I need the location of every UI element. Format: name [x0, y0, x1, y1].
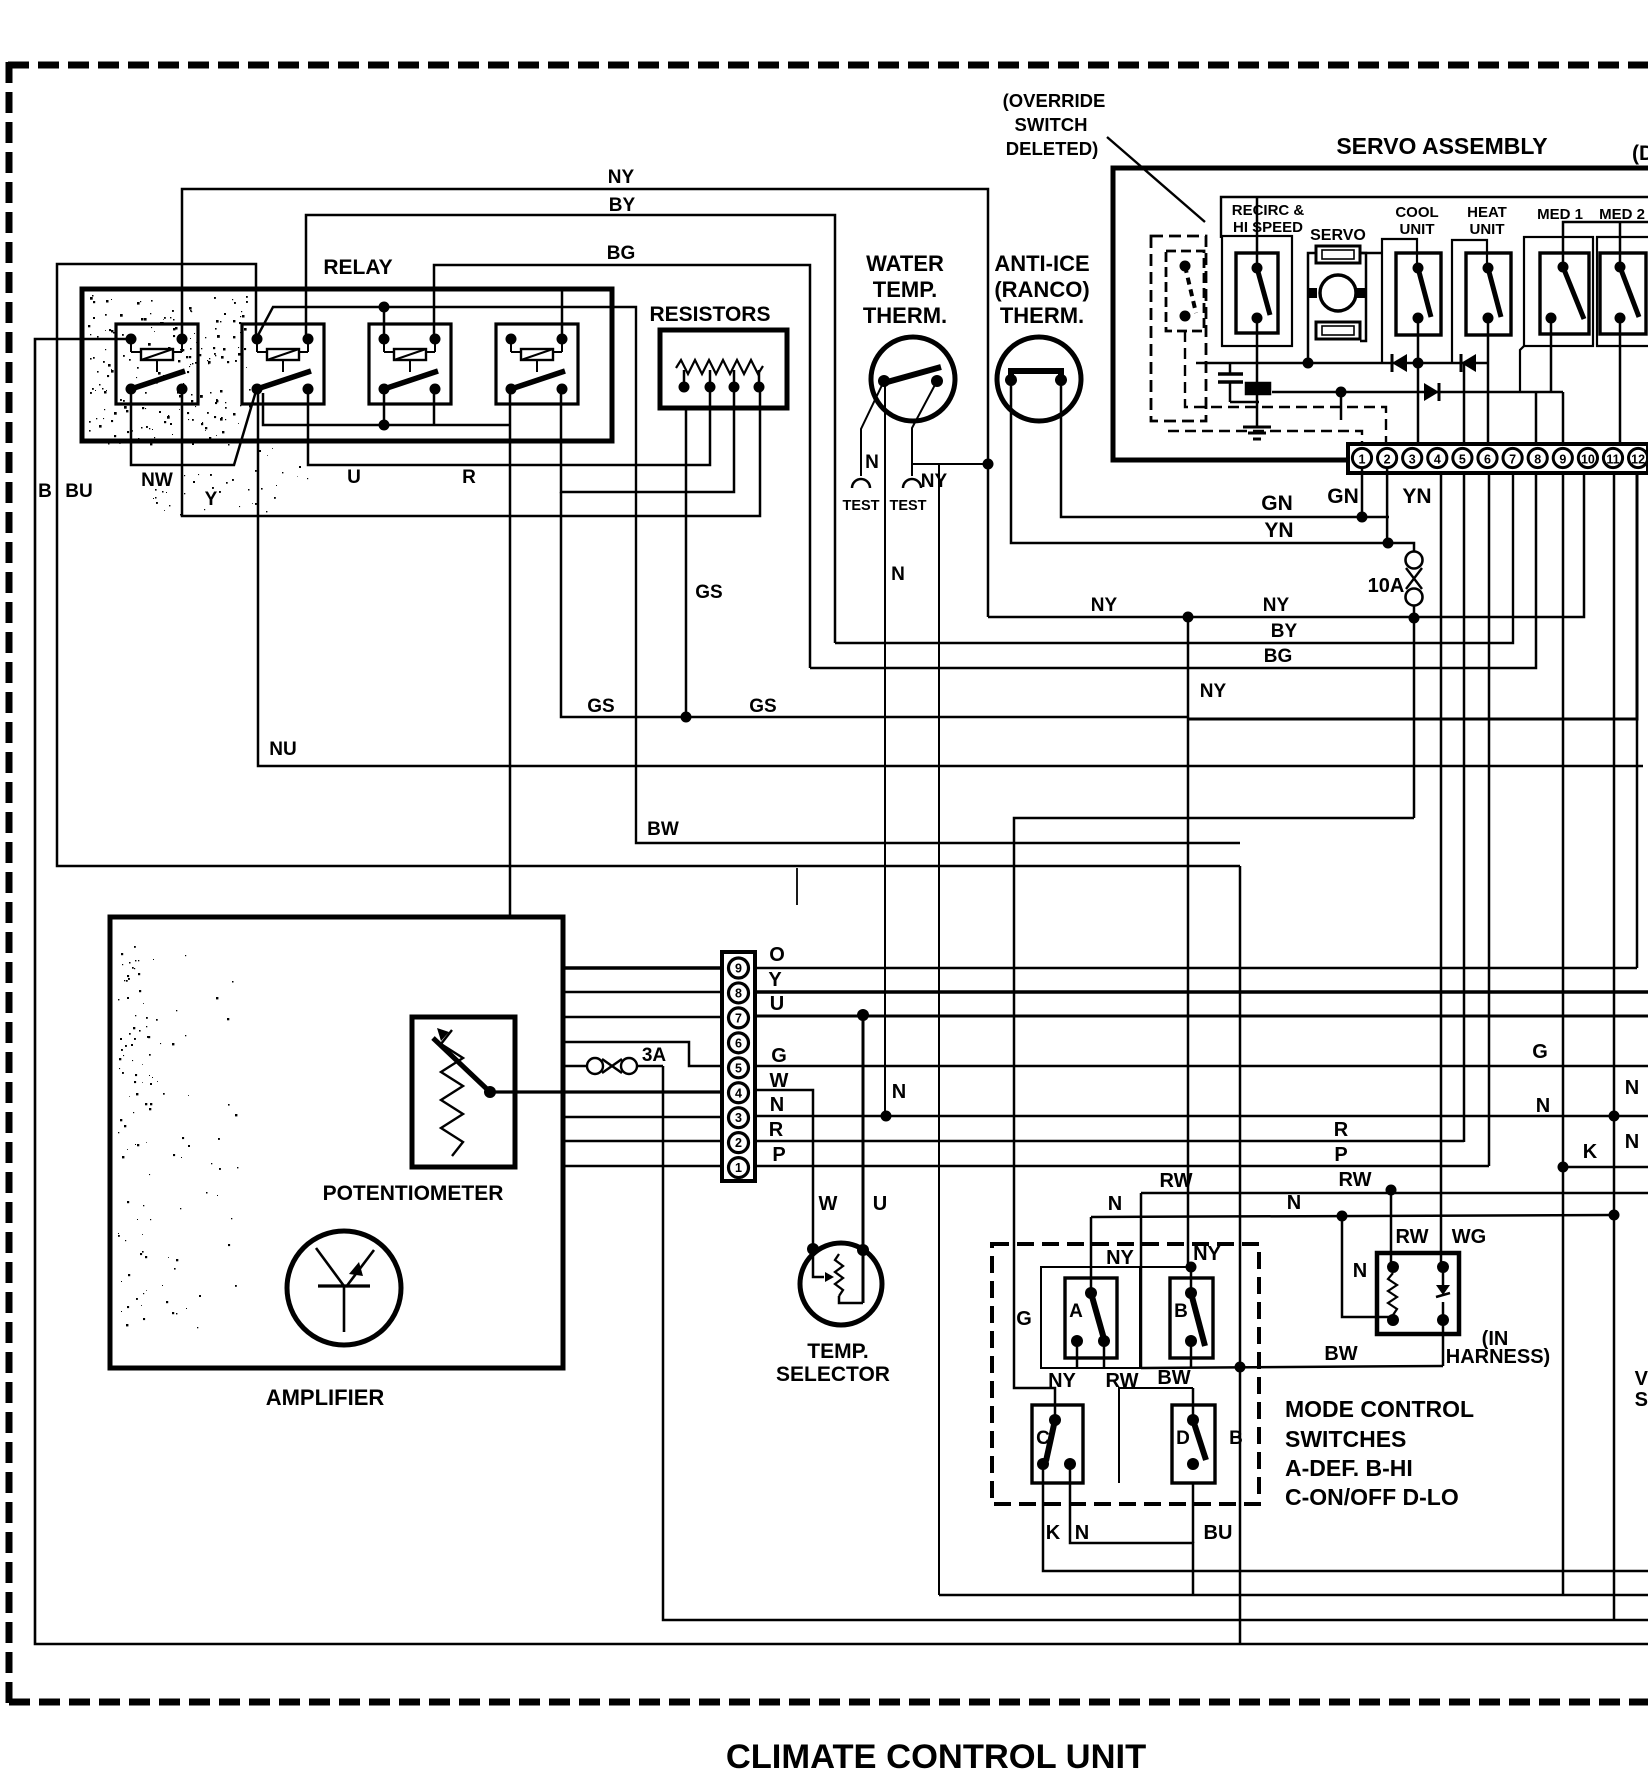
resistor block coil — [676, 360, 763, 374]
wire pin6 down (P) — [1488, 473, 1491, 1166]
wire RW row — [1141, 1185, 1648, 1196]
svg-text:V: V — [1635, 1368, 1648, 1390]
connector pin 7 — [729, 1008, 749, 1028]
svg-text:HI SPEED: HI SPEED — [1233, 219, 1303, 236]
wire BG row 668 to pin8 — [810, 473, 1536, 668]
svg-text:NY: NY — [1193, 1243, 1221, 1265]
svg-text:BU: BU — [1204, 1522, 1233, 1544]
wire fuse down — [1413, 618, 1416, 818]
wire BU drop — [1239, 866, 1242, 1644]
wire cool bottom to pin3 — [1417, 318, 1420, 444]
wire BU (left bus to row 866) — [57, 264, 1240, 866]
svg-text:YN: YN — [1402, 485, 1431, 508]
relay K4 coil — [511, 339, 562, 372]
wire G feed row 818 — [1014, 818, 1414, 1420]
wire NY drop 1188 — [1187, 617, 1190, 1267]
terminal 8 — [1528, 448, 1547, 467]
wire Y (relay K1 BR to resistor 4) — [182, 387, 760, 516]
wire NU (relay K2 BL down, row 766) — [258, 393, 1643, 766]
svg-text:BG: BG — [1264, 646, 1293, 667]
svg-text:10: 10 — [1581, 453, 1595, 467]
junction relay3 top — [379, 302, 390, 340]
wire K (C left down) — [1043, 1464, 1648, 1571]
servo small resistor (dark) — [1246, 383, 1270, 394]
recirc contacts — [1252, 263, 1263, 324]
svg-text:2: 2 — [1384, 453, 1391, 467]
wire pin2 to YN — [1386, 468, 1389, 543]
svg-text:B: B — [1174, 1301, 1188, 1322]
wire YN (anti-ice left to pin2) — [1011, 380, 1388, 543]
resistor block box — [660, 330, 787, 408]
resistor terminal x684 — [679, 370, 690, 393]
wire K drop — [1562, 1167, 1565, 1595]
heat contacts — [1483, 263, 1494, 324]
svg-text:A: A — [1069, 1301, 1083, 1322]
svg-text:GS: GS — [587, 696, 614, 717]
svg-text:R: R — [1334, 1119, 1349, 1141]
svg-text:10A: 10A — [1368, 575, 1405, 597]
svg-text:N: N — [1108, 1193, 1122, 1215]
junction NY — [983, 459, 994, 470]
svg-text:N: N — [865, 452, 879, 473]
relay outer box — [82, 289, 612, 441]
heat unit switch box — [1466, 253, 1511, 335]
wire pin8 to med1 row — [1535, 392, 1538, 444]
svg-text:THERM.: THERM. — [863, 303, 947, 328]
svg-text:BW: BW — [1157, 1367, 1190, 1389]
servo right lead — [1360, 253, 1366, 341]
fuse 3A — [587, 1058, 637, 1074]
svg-text:K: K — [1583, 1141, 1598, 1163]
servo resistor bottom — [1316, 322, 1360, 339]
fuse 10A wire bottom — [1409, 605, 1420, 624]
switch A stubs — [1077, 1341, 1104, 1368]
servo diode row 2 — [1272, 391, 1563, 394]
wire N (water temp down) — [884, 381, 886, 1116]
servo link to cool loop — [1360, 252, 1382, 255]
transistor Q1 symbol — [316, 1248, 374, 1332]
svg-text:9: 9 — [735, 962, 742, 976]
wire recirc bottom to resistor — [1256, 318, 1259, 383]
wire harness switch bottom — [1442, 1320, 1445, 1366]
svg-text:A-DEF. B-HI: A-DEF. B-HI — [1285, 1455, 1413, 1481]
svg-text:12: 12 — [1631, 453, 1645, 467]
wire relay4 BL down to amp — [509, 425, 512, 917]
wire U drop to temp selector — [862, 1015, 865, 1303]
wire med2 top — [1619, 222, 1622, 267]
relay K3 box — [369, 324, 451, 404]
svg-text:HARNESS): HARNESS) — [1446, 1346, 1550, 1368]
wire med1 top — [1563, 222, 1648, 267]
connector pin 1 — [729, 1158, 749, 1178]
svg-text:GN: GN — [1261, 492, 1293, 515]
switch A box — [1065, 1278, 1117, 1358]
terminal 6 — [1478, 448, 1497, 467]
heat unit loop — [1452, 240, 1487, 363]
servo assembly box — [1113, 168, 1648, 460]
svg-text:Y: Y — [205, 489, 218, 510]
relay K1 blade — [131, 371, 185, 389]
svg-text:ANTI-ICE: ANTI-ICE — [994, 251, 1089, 276]
svg-text:K: K — [1046, 1522, 1061, 1544]
svg-text:N: N — [1353, 1260, 1367, 1282]
relay K3 blade — [384, 371, 438, 389]
water temp contacts — [878, 375, 943, 387]
relay K3 contacts — [379, 334, 441, 395]
svg-text:R: R — [462, 467, 476, 488]
terminal 9 — [1553, 448, 1572, 467]
diode D2 — [1461, 354, 1476, 372]
svg-text:TEMP.: TEMP. — [873, 277, 937, 302]
potentiometer element — [441, 1030, 463, 1156]
junction NY mode — [1186, 1262, 1197, 1273]
override switch dashed box — [1166, 251, 1204, 331]
svg-text:NY: NY — [1263, 595, 1290, 616]
temp selector body — [800, 1243, 882, 1325]
wire BW (relay K2 TL diagonal down mid) — [256, 307, 1240, 843]
svg-text:N: N — [1625, 1131, 1639, 1153]
switch A outer box — [1041, 1267, 1189, 1368]
wire R (relay K4 BR to resistor 3) — [561, 387, 734, 492]
terminal 12 — [1629, 448, 1648, 467]
wire U row — [563, 1016, 1648, 1017]
wire GS (relay K4 BR down, row 717) — [561, 492, 1189, 717]
wire BY row 643 to pin7 — [835, 473, 1513, 643]
temp selector bottom link — [839, 1296, 863, 1303]
wire GN (anti-ice right to pin1) — [1061, 380, 1389, 517]
med2 blade — [1620, 267, 1639, 317]
potentiometer wiper — [433, 1028, 496, 1098]
label RECIRC & HI SPEED — [1232, 202, 1305, 236]
wire N row — [563, 1116, 1648, 1117]
wire pin11 down (N) — [1613, 473, 1616, 1620]
wire heat bottom to pin6 — [1487, 318, 1490, 444]
svg-text:SERVO: SERVO — [1310, 227, 1366, 244]
test point hook 2 — [903, 479, 921, 488]
relay K4 box — [496, 324, 578, 404]
terminal 7 — [1503, 448, 1522, 467]
wire NY row 718 to pin12 — [1189, 473, 1637, 719]
svg-text:1: 1 — [1359, 453, 1366, 467]
potentiometer box — [412, 1017, 515, 1167]
wire med2 bottom to pin11 — [1619, 318, 1622, 444]
wire pin4 down (WG) — [1440, 473, 1443, 1267]
wire NY branch to junction — [912, 463, 988, 465]
svg-text:RW: RW — [1160, 1170, 1193, 1192]
wire BG (relay K3 to right) — [434, 265, 810, 668]
svg-text:MODE CONTROL: MODE CONTROL — [1285, 1396, 1474, 1422]
svg-text:3: 3 — [1409, 453, 1416, 467]
wire stub at 797 — [796, 868, 798, 905]
relay K2 box — [242, 324, 324, 404]
recirc switch box — [1236, 253, 1278, 333]
wire resistor1 lead down — [681, 408, 692, 723]
servo left lead — [1303, 253, 1317, 369]
wire G zig (amp to pin5) — [563, 1042, 722, 1066]
wire Y row — [563, 991, 1648, 994]
svg-text:B: B — [1229, 1428, 1243, 1449]
svg-text:1: 1 — [735, 1161, 742, 1175]
terminal 10 — [1578, 448, 1597, 467]
svg-text:RESISTORS: RESISTORS — [650, 303, 771, 326]
wire BW row mode — [1141, 1362, 1443, 1373]
svg-text:BU: BU — [65, 481, 92, 502]
svg-text:(D: (D — [1632, 142, 1648, 165]
svg-text:COOL: COOL — [1395, 204, 1438, 221]
svg-text:N: N — [770, 1094, 784, 1116]
svg-text:AMPLIFIER: AMPLIFIER — [266, 1385, 385, 1410]
med1 blade — [1563, 267, 1584, 319]
wire O row — [563, 966, 1637, 969]
connector pin 6 — [729, 1033, 749, 1053]
wire W row right — [755, 1090, 813, 1249]
wire D top — [1192, 1388, 1195, 1420]
svg-text:N: N — [1075, 1522, 1089, 1544]
servo resistor top — [1316, 246, 1360, 263]
med2 switch box — [1600, 253, 1646, 334]
junction YN pin2 — [1383, 538, 1394, 549]
wire B (vertical left bus, bottom rail) — [35, 339, 1648, 1644]
dashed enclosure border (top) — [8, 62, 1648, 69]
junction row2 — [1336, 387, 1347, 398]
svg-text:8: 8 — [735, 986, 742, 1000]
resistor terminal x734 — [729, 370, 740, 393]
wire N to coil — [1342, 1216, 1393, 1317]
svg-text:NY: NY — [608, 167, 635, 188]
svg-text:BW: BW — [1324, 1343, 1357, 1365]
switch B contacts — [1185, 1287, 1197, 1347]
junction U temp selector — [857, 1009, 869, 1021]
wire N row 1595 — [939, 1594, 1648, 1597]
wire W row (wiper to pin4) — [490, 1090, 722, 1093]
capacitor C1 — [1218, 363, 1259, 402]
svg-text:N: N — [891, 564, 905, 585]
wire NY to B — [1190, 1267, 1193, 1293]
svg-text:G: G — [1016, 1308, 1032, 1330]
switch A contacts — [1071, 1287, 1110, 1347]
override outer dashed box — [1151, 236, 1206, 421]
svg-text:W: W — [770, 1070, 789, 1092]
relay K1 box — [116, 324, 198, 404]
switch C blade — [1046, 1420, 1055, 1461]
svg-text:N: N — [1287, 1192, 1301, 1214]
temp selector wiper — [813, 1249, 834, 1282]
svg-text:U: U — [347, 467, 361, 488]
svg-text:3A: 3A — [642, 1045, 667, 1066]
connector pin 5 — [729, 1058, 749, 1078]
wire R row — [563, 1140, 1464, 1143]
test point hook 1 — [852, 479, 870, 488]
svg-text:MED 1: MED 1 — [1537, 206, 1583, 223]
switch D blade — [1193, 1420, 1206, 1460]
switch B box — [1170, 1278, 1213, 1358]
svg-text:BY: BY — [609, 195, 636, 216]
label IN HARNESS — [1446, 1328, 1550, 1368]
wire relay K4 top — [561, 289, 564, 339]
svg-text:P: P — [772, 1144, 785, 1166]
override blade (dashed) — [1185, 266, 1196, 313]
harness relay coil — [1387, 1261, 1399, 1326]
switch D box — [1172, 1405, 1215, 1483]
label HEAT UNIT — [1467, 204, 1507, 238]
svg-text:8: 8 — [1534, 453, 1541, 467]
harness relay switch — [1436, 1261, 1450, 1326]
recirc blade — [1257, 268, 1270, 315]
wire pin5 down (R) — [1463, 473, 1466, 1142]
harness relay box — [1377, 1253, 1459, 1334]
connector pin 9 — [729, 958, 749, 978]
terminal strip box — [1348, 444, 1648, 473]
cool blade — [1418, 268, 1431, 317]
recirc outer box — [1222, 236, 1292, 346]
diode D1 — [1392, 354, 1407, 372]
wire to ground — [1256, 394, 1259, 427]
med1 outer box — [1524, 237, 1593, 346]
svg-text:CLIMATE CONTROL UNIT: CLIMATE CONTROL UNIT — [726, 1738, 1146, 1776]
wire N drop to A — [1090, 1217, 1093, 1293]
override contacts — [1180, 261, 1191, 322]
mode control dashed box — [992, 1244, 1259, 1504]
med2 outer box — [1597, 237, 1648, 346]
label OVERRIDE SWITCH DELETED — [1003, 90, 1106, 159]
anti-ice thermostat body — [997, 337, 1081, 421]
svg-text:NY: NY — [1091, 595, 1118, 616]
label COOL UNIT — [1395, 204, 1438, 238]
anti-ice contacts — [1005, 374, 1067, 386]
svg-text:GS: GS — [695, 582, 722, 603]
heat blade — [1488, 268, 1501, 317]
svg-text:WG: WG — [1452, 1226, 1486, 1248]
override dashed tail 1 — [1185, 331, 1386, 442]
svg-text:UNIT: UNIT — [1470, 221, 1505, 238]
toner speckle — [88, 295, 308, 1328]
water temp blade — [880, 367, 941, 384]
relay K2 blade — [257, 371, 311, 389]
svg-text:SWITCHES: SWITCHES — [1285, 1426, 1406, 1452]
svg-text:BW: BW — [647, 819, 679, 840]
svg-text:MED 2: MED 2 — [1599, 206, 1645, 223]
wire D stub down — [1192, 1483, 1195, 1543]
svg-text:P: P — [1334, 1144, 1347, 1166]
dashed enclosure border (left) — [6, 62, 13, 1706]
terminal 11 — [1603, 448, 1622, 467]
wire N to test point — [861, 381, 884, 476]
svg-text:4: 4 — [1434, 453, 1441, 467]
switch C contacts — [1037, 1414, 1076, 1470]
relay K2 coil — [257, 339, 308, 372]
svg-text:3: 3 — [735, 1111, 742, 1125]
svg-text:U: U — [770, 993, 784, 1015]
resistor terminal x710 — [705, 370, 716, 393]
junction GN pin1 — [1357, 512, 1368, 523]
svg-text:G: G — [771, 1045, 787, 1067]
svg-text:UNIT: UNIT — [1400, 221, 1435, 238]
svg-text:SERVO ASSEMBLY: SERVO ASSEMBLY — [1336, 133, 1547, 159]
amplifier box — [110, 917, 563, 1368]
wire N2 (row 464 down) — [938, 464, 940, 1595]
dashed enclosure border (bottom) — [9, 1699, 1648, 1706]
wire O riser right — [1636, 719, 1639, 968]
svg-text:N: N — [892, 1081, 906, 1103]
svg-text:HEAT: HEAT — [1467, 204, 1507, 221]
wire pin9 down — [1562, 473, 1565, 1167]
label MODE CONTROL SWITCHES — [1285, 1396, 1474, 1510]
svg-text:YN: YN — [1264, 519, 1293, 542]
servo motor M1 — [1320, 275, 1356, 311]
svg-text:NW: NW — [141, 470, 173, 491]
svg-text:6: 6 — [1484, 453, 1491, 467]
svg-text:GS: GS — [749, 696, 776, 717]
wire N row 1216 — [1091, 1210, 1620, 1222]
med1 contacts — [1546, 262, 1569, 324]
ground symbol — [1243, 427, 1271, 439]
wire row2 drop — [1340, 392, 1343, 420]
svg-text:9: 9 — [1559, 453, 1566, 467]
fuse 10A — [1406, 552, 1423, 606]
resistor terminal x759 — [754, 370, 765, 393]
servo motor nubs — [1309, 288, 1365, 298]
svg-text:6: 6 — [735, 1036, 742, 1050]
terminal 3 — [1403, 448, 1422, 467]
transistor Q1 body — [287, 1231, 401, 1345]
svg-text:RELAY: RELAY — [323, 256, 392, 279]
cool unit switch box — [1396, 253, 1441, 335]
wire pin1 to GN — [1361, 468, 1364, 517]
svg-text:G: G — [1532, 1041, 1548, 1063]
servo diode row — [1196, 362, 1488, 365]
switch A blade — [1091, 1293, 1104, 1339]
svg-text:N: N — [1536, 1095, 1550, 1117]
temp selector contacts — [807, 1243, 869, 1256]
cool contacts — [1413, 263, 1424, 324]
relay K4 contacts — [506, 334, 568, 395]
svg-text:RECIRC &: RECIRC & — [1232, 202, 1305, 219]
junction diode row cool — [1413, 358, 1424, 369]
terminal 2 — [1378, 448, 1397, 467]
wire NW (relay K1 to K2) — [131, 389, 256, 465]
svg-text:NU: NU — [269, 739, 296, 760]
svg-text:GN: GN — [1327, 485, 1359, 508]
relay K4 blade — [511, 371, 565, 389]
wire NY to test point — [912, 381, 937, 476]
switch B blade — [1191, 1293, 1205, 1346]
wire med1 bottom — [1550, 318, 1553, 392]
relay K3 coil — [384, 339, 435, 372]
relay K1 coil — [131, 339, 182, 372]
med1 switch box — [1540, 253, 1589, 334]
svg-text:C: C — [1036, 1428, 1050, 1449]
svg-text:NY: NY — [1200, 681, 1227, 702]
svg-text:NY: NY — [1106, 1247, 1134, 1269]
connector pin 8 — [729, 983, 749, 1003]
switch B stub — [1190, 1341, 1193, 1368]
svg-text:TEST: TEST — [842, 498, 879, 514]
connector pin 3 — [729, 1108, 749, 1128]
svg-text:11: 11 — [1606, 453, 1619, 467]
wire RW drop to mode — [1140, 1193, 1143, 1368]
servo inner box — [1221, 197, 1648, 238]
wire N (C right down) — [1070, 1464, 1193, 1595]
svg-text:O: O — [769, 944, 785, 966]
svg-text:W: W — [819, 1193, 838, 1215]
svg-text:S: S — [1635, 1389, 1648, 1411]
svg-text:5: 5 — [1459, 453, 1466, 467]
svg-text:TEST: TEST — [889, 498, 926, 514]
svg-text:N: N — [1625, 1077, 1639, 1099]
svg-text:SWITCH: SWITCH — [1015, 114, 1088, 135]
svg-text:2: 2 — [735, 1136, 742, 1150]
svg-text:7: 7 — [735, 1011, 742, 1025]
